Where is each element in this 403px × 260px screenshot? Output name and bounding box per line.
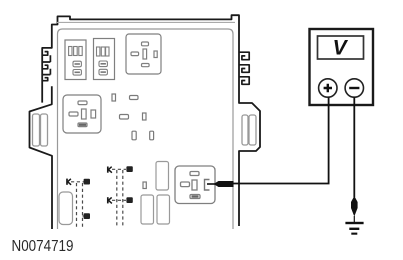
svg-text:V: V (333, 37, 349, 60)
svg-text:N0074719: N0074719 (12, 238, 74, 255)
